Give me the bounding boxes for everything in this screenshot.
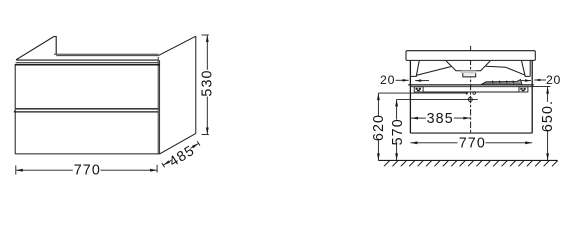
- 570 reference line: [397, 98, 478, 100]
- drain boss: [461, 71, 477, 77]
- dim 650 line: [546, 87, 549, 161]
- drain reference dot: [466, 92, 468, 94]
- side panel back edge: [195, 36, 197, 133]
- svg-text:385: 385: [427, 111, 454, 127]
- dim 770 line: [16, 169, 157, 172]
- upstand left panel: [16, 37, 56, 60]
- dim 620 label: [371, 114, 387, 141]
- cabinet front face outline: [15, 57, 159, 154]
- small open circle: [473, 92, 476, 95]
- dim 650 label: [540, 100, 556, 132]
- mounting rail line: [408, 84, 534, 86]
- svg-text:650.: 650.: [540, 100, 556, 132]
- side panel top edge: [159, 36, 196, 55]
- dim 530 extension ticks: [202, 35, 209, 135]
- siphon outlet symbol: [468, 96, 472, 103]
- dim 20 left label: [380, 73, 395, 87]
- dim 770 extension ticks: [16, 165, 157, 175]
- dim 485 extension ticks: [162, 141, 200, 167]
- dim 20 right label: [546, 73, 561, 87]
- cabinet box front view: [410, 60, 532, 133]
- svg-text:620: 620: [371, 114, 387, 141]
- dim 385 line: [411, 117, 470, 120]
- basin centre line: [470, 46, 472, 133]
- svg-text:20: 20: [380, 73, 395, 87]
- svg-text:530: 530: [199, 69, 215, 96]
- dim 570 label: [390, 118, 406, 145]
- svg-text:770: 770: [459, 135, 486, 151]
- overflow tray: [481, 80, 522, 85]
- drawer divider lines: [15, 109, 158, 112]
- dim 620 line: [377, 93, 380, 160]
- dim 570 line: [395, 99, 398, 160]
- basin left foot: [410, 61, 419, 76]
- dim 530 label: [199, 69, 215, 96]
- cabinet top front edge band: [15, 60, 160, 65]
- dim 385 label: [427, 111, 454, 127]
- dim 650 top tick: [532, 86, 550, 88]
- bracket top line: [410, 86, 532, 88]
- svg-text:20: 20: [546, 73, 561, 87]
- right wall bracket: [519, 87, 528, 92]
- svg-text:570: 570: [390, 118, 406, 145]
- dim 770 label: [74, 163, 101, 179]
- side panel bottom edge: [160, 133, 196, 154]
- dim 530 line: [206, 35, 209, 135]
- drawer pivot dot: [14, 111, 16, 113]
- left wall bracket: [414, 87, 423, 92]
- floor line with hatching: [378, 160, 557, 166]
- dim 20 left arrows: [396, 79, 429, 82]
- dim 485 label: [166, 143, 198, 171]
- dim 20 right arrows: [521, 79, 546, 82]
- cabinet top back edge line: [54, 54, 159, 56]
- 620 reference line: [378, 92, 465, 94]
- dim 485 line: [163, 143, 198, 165]
- bracket connecting line: [423, 91, 519, 93]
- dim 770 right label: [459, 135, 486, 151]
- svg-text:770: 770: [74, 163, 101, 179]
- basin bowl underside: [416, 61, 525, 75]
- basin right foot: [522, 60, 531, 76]
- dim 770 right line: [410, 141, 532, 144]
- washbasin top slab: [406, 51, 535, 61]
